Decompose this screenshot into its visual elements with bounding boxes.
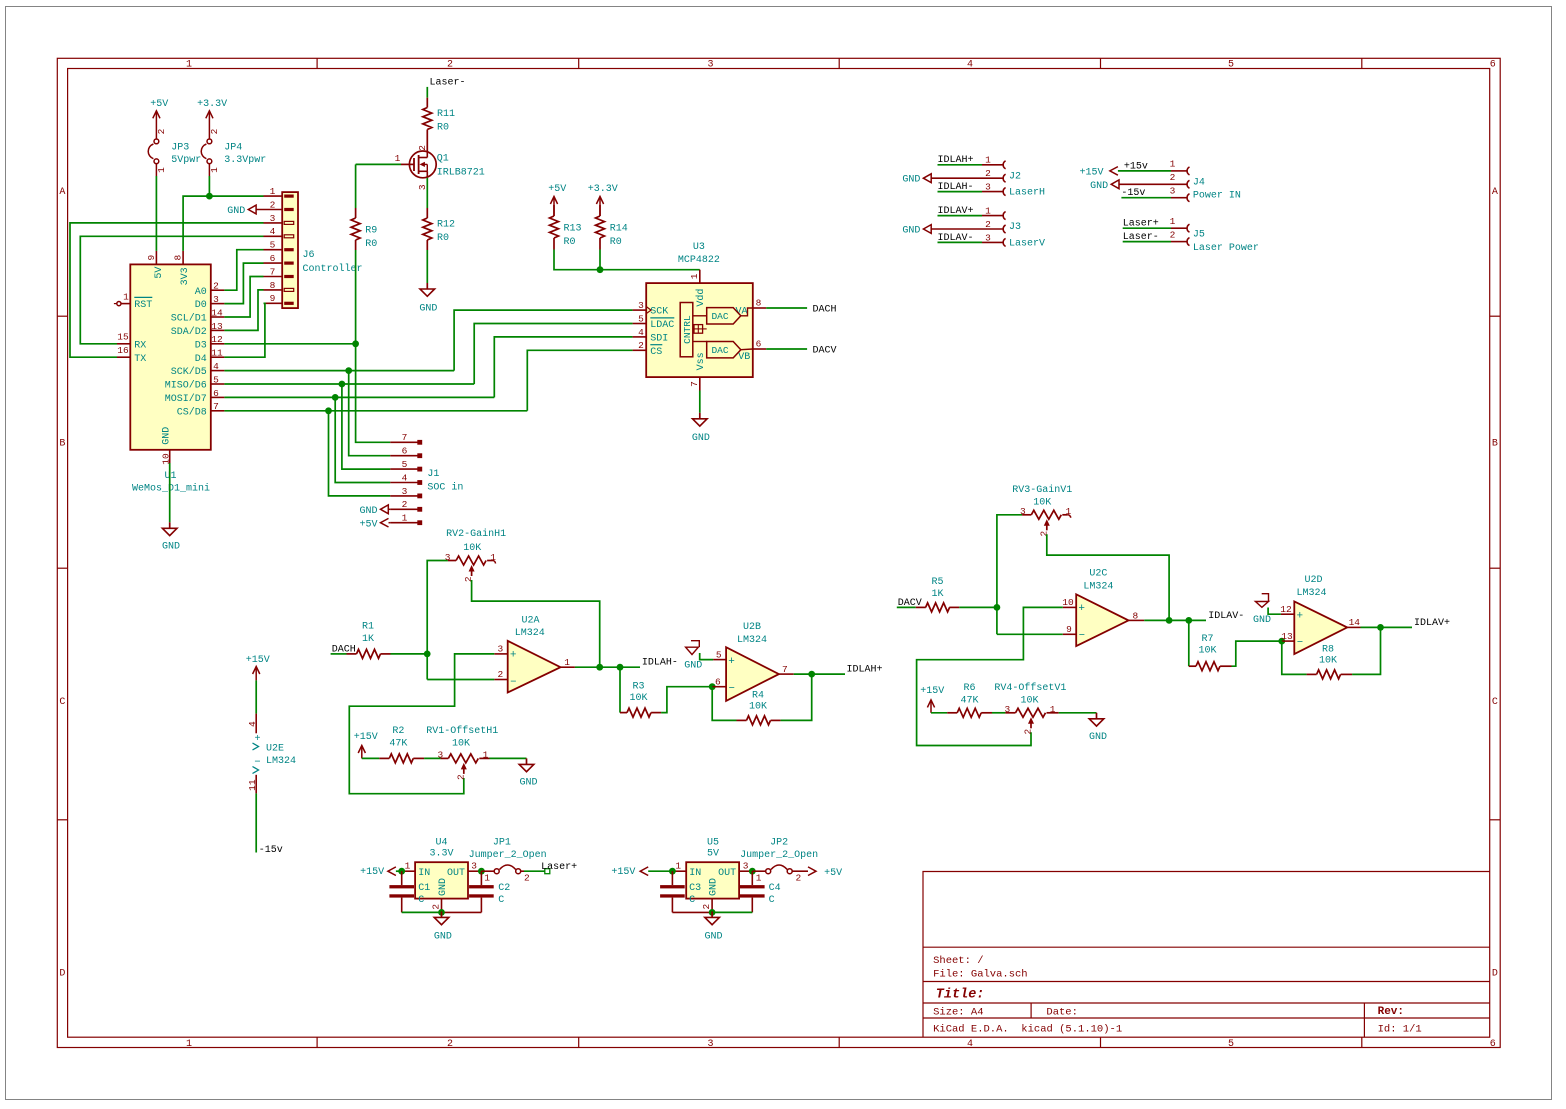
J6 pin 9: [264, 302, 283, 304]
J6 pin 6: [264, 262, 283, 264]
svg-text:D: D: [59, 969, 65, 980]
svg-text:IN: IN: [689, 868, 701, 879]
svg-text:Jumper_2_Open: Jumper_2_Open: [740, 850, 818, 861]
wire SDI to U3: [494, 337, 632, 398]
svg-text:3.3V: 3.3V: [429, 849, 453, 860]
U5 pin 2 (GND): [711, 899, 713, 913]
svg-text:C1: C1: [418, 883, 430, 894]
wire to R3: [619, 667, 621, 712]
svg-text:D4: D4: [195, 354, 207, 365]
ground flag J2 pin 2: [923, 174, 931, 183]
svg-text:IDLAV-: IDLAV-: [1208, 611, 1244, 622]
junction R7 branch: [1185, 617, 1192, 624]
wire to R7: [1188, 620, 1190, 666]
svg-text:R3: R3: [632, 682, 644, 693]
wire +in route U2A: [349, 654, 494, 794]
svg-text:C: C: [418, 895, 424, 906]
op-amp U2A: [508, 641, 561, 693]
svg-text:C4: C4: [769, 883, 781, 894]
svg-text:3: 3: [743, 860, 749, 871]
svg-text:R0: R0: [365, 239, 377, 250]
junction R5 out: [994, 604, 1001, 611]
svg-text:1: 1: [985, 155, 991, 166]
wire JP4 down: [208, 176, 210, 196]
svg-text:GND: GND: [438, 878, 449, 896]
svg-text:1: 1: [985, 206, 991, 217]
svg-text:Laser+: Laser+: [541, 862, 577, 873]
wire +15V to U5: [648, 870, 672, 872]
svg-text:Id: 1/1: Id: 1/1: [1378, 1024, 1422, 1036]
svg-text:WeMos_D1_mini: WeMos_D1_mini: [132, 483, 210, 495]
svg-text:IDLAH-: IDLAH-: [642, 658, 678, 669]
svg-text:10K: 10K: [463, 543, 481, 554]
svg-text:GND: GND: [419, 303, 437, 314]
svg-text:C2: C2: [498, 883, 510, 894]
wire R6 to RV4: [992, 712, 1005, 714]
svg-text:4: 4: [402, 472, 408, 483]
svg-text:2: 2: [213, 281, 219, 292]
svg-text:+15V: +15V: [920, 686, 944, 697]
ground U5: [711, 911, 713, 917]
svg-text:2: 2: [638, 340, 644, 351]
U3 pin 1 (Vdd): [699, 270, 701, 283]
svg-text:13: 13: [1281, 631, 1293, 642]
svg-text:IDLAV+: IDLAV+: [1414, 618, 1450, 629]
svg-text:Date:: Date:: [1046, 1007, 1078, 1019]
U3 internal links: [693, 315, 707, 317]
svg-text:JP2: JP2: [770, 837, 788, 848]
svg-text:3: 3: [213, 294, 219, 305]
svg-text:2: 2: [498, 669, 504, 680]
svg-text:2: 2: [270, 199, 276, 210]
U5 pin 3 (OUT): [739, 870, 752, 872]
U2D pin 12: [1281, 613, 1294, 615]
IC U1 body: [130, 264, 211, 449]
wire Q1 source: [426, 178, 428, 208]
J1 pin 7: [390, 441, 417, 443]
svg-text:R12: R12: [437, 219, 455, 230]
wire U2E V+: [255, 680, 257, 713]
U3 pin 5 (LDAC): [633, 323, 647, 325]
svg-text:C: C: [498, 895, 504, 906]
svg-text:2: 2: [431, 904, 442, 910]
svg-text:JP1: JP1: [493, 837, 511, 848]
svg-text:1: 1: [123, 291, 129, 302]
svg-text:GND: GND: [162, 541, 180, 552]
ground flag J6 pin2: [248, 205, 256, 214]
wire U3 Vss to GND: [699, 391, 701, 413]
wire R2 to RV1: [424, 757, 441, 759]
svg-text:+5V: +5V: [359, 519, 377, 530]
junction U2D -in: [1278, 638, 1285, 645]
svg-text:+15V: +15V: [1079, 167, 1103, 178]
svg-text:5: 5: [716, 649, 722, 660]
J1 pin 1: [390, 522, 417, 524]
svg-text:J1: J1: [427, 469, 439, 480]
svg-text:5: 5: [213, 374, 219, 385]
svg-text:Q1: Q1: [437, 153, 449, 164]
J5 pin 1: [1171, 227, 1187, 229]
wire R9 to J1 pin7: [356, 250, 391, 442]
svg-text:9: 9: [1066, 624, 1072, 635]
op-amp U2D: [1294, 602, 1347, 655]
resistor R1: [347, 653, 357, 655]
wire U5 ground rail red: [672, 911, 712, 913]
wire VA out: [766, 307, 807, 309]
wire D3 bus: [224, 343, 355, 345]
power flag +5V JP2: [792, 870, 808, 872]
svg-text:4: 4: [967, 1039, 973, 1050]
wire -in row U2C: [997, 633, 1063, 635]
potentiometer RV2-GainH1: [448, 560, 456, 562]
svg-text:U2B: U2B: [743, 622, 761, 633]
svg-text:10K: 10K: [1020, 695, 1038, 706]
svg-text:Vdd: Vdd: [695, 289, 707, 307]
op-amp U2E power unit: [255, 714, 257, 734]
svg-text:D0: D0: [195, 300, 207, 311]
svg-text:Controller: Controller: [303, 263, 363, 275]
wire Laser+: [1123, 227, 1171, 229]
U2C pin 8: [1129, 619, 1145, 621]
U2A pin 2: [494, 679, 507, 681]
svg-text:R0: R0: [610, 237, 622, 248]
svg-text:8: 8: [756, 297, 762, 308]
svg-text:14: 14: [211, 307, 223, 318]
junction RV3 feedback: [1166, 617, 1173, 624]
svg-text:R0: R0: [437, 122, 449, 133]
regulator U5 body: [686, 862, 739, 898]
U1 pin 8 (3V3): [182, 251, 184, 265]
resistor R2: [379, 757, 389, 759]
svg-text:MOSI/D7: MOSI/D7: [165, 393, 207, 405]
U3 pin 2 (CS): [633, 349, 647, 351]
resistor R3: [620, 712, 627, 714]
svg-text:+: +: [728, 656, 735, 668]
svg-text:3.3Vpwr: 3.3Vpwr: [224, 155, 266, 166]
wire end marker: [545, 869, 550, 874]
svg-text:J3: J3: [1009, 222, 1021, 233]
svg-text:RST: RST: [134, 300, 152, 311]
frame tick: [838, 58, 840, 68]
ground flag J1 pin2: [381, 505, 389, 514]
svg-text:1: 1: [756, 872, 762, 883]
wire junction to RV2 and -in: [427, 561, 448, 680]
svg-text:RV3-GainV1: RV3-GainV1: [1012, 484, 1072, 496]
svg-text:U2E: U2E: [266, 744, 284, 755]
resistor R5: [916, 606, 926, 608]
svg-text:3: 3: [445, 552, 451, 563]
wire U2C out: [1144, 619, 1206, 621]
junction U5 GND: [709, 909, 716, 916]
svg-text:47K: 47K: [960, 695, 978, 706]
svg-text:4: 4: [213, 361, 219, 372]
svg-text:SCL/D1: SCL/D1: [171, 313, 207, 325]
svg-text:OUT: OUT: [447, 868, 465, 879]
svg-text:6: 6: [1490, 60, 1496, 71]
svg-text:3: 3: [1020, 506, 1026, 517]
svg-text:5V: 5V: [707, 849, 719, 860]
svg-text:2: 2: [447, 1039, 453, 1050]
wire U5 ground rail: [712, 911, 752, 913]
svg-text:5: 5: [1228, 60, 1234, 71]
junction U2D out: [1377, 624, 1384, 631]
svg-text:4: 4: [270, 226, 276, 237]
svg-text:Laser Power: Laser Power: [1193, 243, 1259, 254]
resistor R7: [1189, 665, 1196, 667]
J5 pin 2: [1171, 241, 1187, 243]
svg-text:3: 3: [707, 1039, 713, 1050]
svg-text:1: 1: [490, 552, 496, 563]
svg-text:11: 11: [247, 779, 258, 791]
jumper JP2: [752, 870, 765, 872]
J1 pin 5: [390, 468, 417, 470]
wire Laser- to R11: [426, 87, 428, 98]
U3 pin 3 (SCK): [633, 309, 647, 311]
svg-text:10K: 10K: [749, 702, 767, 713]
svg-text:10: 10: [1062, 597, 1074, 608]
svg-text:1: 1: [270, 186, 276, 197]
svg-text:+15V: +15V: [354, 732, 378, 743]
U2C pin 9: [1063, 633, 1076, 635]
svg-text:−: −: [729, 683, 735, 695]
U3 CNTRL block: [680, 303, 693, 357]
svg-text:7: 7: [213, 401, 219, 412]
wire MISO to J1 pin5: [342, 384, 390, 469]
svg-text:U3: U3: [693, 242, 705, 253]
U1 pin 4 (SCK/D5): [211, 370, 225, 372]
svg-text:J5: J5: [1193, 230, 1205, 241]
svg-text:6: 6: [1490, 1039, 1496, 1050]
wire U2A out: [575, 666, 640, 668]
J1 pin 2: [390, 508, 417, 510]
svg-text:SCK/D5: SCK/D5: [171, 366, 207, 378]
svg-text:B: B: [59, 439, 65, 450]
junction SCK/D5: [345, 367, 352, 374]
wire A0 to J6 pin5: [224, 250, 263, 291]
U1 pin 9 (5V): [155, 251, 157, 265]
transistor Q1: [409, 151, 436, 178]
potentiometer RV1-OffsetH1: [441, 757, 449, 759]
svg-text:2: 2: [1023, 728, 1034, 734]
svg-text:1: 1: [484, 872, 490, 883]
U1 pin 2 (A0): [211, 289, 225, 291]
svg-text:JP4: JP4: [224, 143, 242, 154]
J4 pin 3: [1171, 197, 1187, 199]
J3 pin 2: [931, 228, 1002, 230]
ground U4: [441, 911, 443, 917]
svg-text:2: 2: [209, 128, 220, 134]
svg-text:J6: J6: [303, 250, 315, 261]
svg-text:Laser-: Laser-: [430, 77, 466, 88]
svg-text:R0: R0: [564, 237, 576, 248]
U4 pin 1 (IN): [402, 870, 415, 872]
svg-text:2: 2: [701, 904, 712, 910]
U3 DAC A: [707, 308, 741, 324]
U1 pin 12 (D3): [211, 343, 225, 345]
wire SCK/D5 bus: [224, 370, 454, 372]
sheet frame inner: [68, 69, 1490, 1038]
svg-text:+3.3V: +3.3V: [588, 184, 618, 195]
capacitor C3: [671, 871, 673, 885]
J2 pin 3: [982, 191, 1003, 193]
svg-text:TX: TX: [134, 354, 146, 365]
wire R8 loop: [1282, 641, 1307, 674]
capacitor C1: [401, 871, 403, 885]
junction R3 branch: [617, 664, 624, 671]
wire R5 to junction: [959, 606, 997, 608]
J4 pin 2: [1119, 183, 1187, 185]
frame tick: [57, 819, 67, 821]
svg-text:R0: R0: [437, 233, 449, 244]
svg-text:C: C: [769, 895, 775, 906]
svg-text:GND: GND: [519, 777, 537, 788]
svg-text:2: 2: [1038, 530, 1049, 536]
svg-text:DACV: DACV: [813, 345, 837, 356]
svg-text:Jumper_2_Open: Jumper_2_Open: [469, 850, 547, 861]
resistor R12: [426, 208, 428, 218]
svg-text:−: −: [1297, 637, 1303, 649]
svg-text:Vss: Vss: [696, 352, 707, 370]
svg-text:5: 5: [402, 459, 408, 470]
svg-text:2: 2: [985, 168, 991, 179]
svg-text:VB: VB: [738, 352, 750, 363]
svg-text:3: 3: [985, 182, 991, 193]
U1 pin 6 (MOSI/D7): [211, 396, 225, 398]
svg-text:2: 2: [795, 872, 801, 883]
svg-text:8: 8: [270, 280, 276, 291]
svg-text:7: 7: [270, 266, 276, 277]
svg-text:13: 13: [211, 321, 223, 332]
svg-text:−: −: [1079, 630, 1085, 642]
junction U2B out: [808, 671, 815, 678]
svg-text:DAC: DAC: [711, 311, 728, 322]
J6 pin 8: [264, 289, 283, 291]
junction U4 OUT: [478, 868, 485, 875]
junction CS/D8: [325, 407, 332, 414]
junction R14/Vdd: [597, 266, 604, 273]
U3 pin 6 (VB): [753, 348, 766, 350]
resistor R9: [355, 208, 357, 218]
wire U2D out: [1361, 626, 1413, 628]
svg-text:12: 12: [211, 334, 223, 345]
svg-text:CNTRL: CNTRL: [682, 315, 693, 344]
svg-text:1: 1: [156, 167, 167, 173]
svg-text:11: 11: [211, 348, 223, 359]
ground below R12: [426, 283, 428, 289]
J2 pin 2: [931, 177, 1002, 179]
J1 pin 4: [390, 482, 417, 484]
wire +15V to R6: [931, 712, 947, 714]
svg-text:3: 3: [707, 60, 713, 71]
J6 pin 1: [264, 195, 283, 197]
svg-text:1: 1: [186, 1039, 192, 1050]
frame tick: [57, 315, 67, 317]
svg-text:SDA/D2: SDA/D2: [171, 326, 207, 338]
svg-text:2: 2: [1170, 229, 1176, 240]
U1 pin 14 (SCL/D1): [211, 316, 225, 318]
junction R1 out: [424, 651, 431, 658]
wire +15V to U4: [396, 870, 402, 872]
svg-text:J2: J2: [1009, 171, 1021, 182]
junction U5 OUT: [749, 868, 756, 875]
svg-text:+15V: +15V: [246, 655, 270, 666]
J6 pin 4: [264, 235, 283, 237]
svg-text:2: 2: [524, 872, 530, 883]
ground below U3: [699, 413, 701, 419]
svg-text:C: C: [59, 697, 65, 708]
frame tick: [1100, 58, 1102, 68]
connector J6 body: [282, 192, 298, 308]
wire LDAC to U3: [474, 324, 632, 385]
svg-text:R4: R4: [752, 690, 764, 701]
svg-text:A: A: [59, 187, 65, 198]
svg-text:LM324: LM324: [266, 756, 296, 767]
wire MISO/D6 bus: [224, 383, 474, 385]
svg-text:+15V: +15V: [611, 867, 635, 878]
U1 pin 16 (TX): [117, 356, 130, 358]
svg-text:-15v: -15v: [259, 845, 283, 856]
potentiometer RV3-GainV1: [1022, 514, 1031, 516]
svg-text:10: 10: [160, 453, 171, 465]
svg-text:RV4-OffsetV1: RV4-OffsetV1: [994, 682, 1066, 694]
resistor R13: [553, 205, 555, 216]
wire SCK to U3: [454, 310, 632, 371]
svg-text:4: 4: [967, 60, 973, 71]
svg-text:Sheet: /: Sheet: /: [933, 955, 983, 967]
svg-text:+: +: [1078, 603, 1085, 615]
svg-text:2: 2: [156, 128, 167, 134]
frame tick: [57, 567, 67, 569]
U5 pin 1 (IN): [672, 870, 686, 872]
svg-text:6: 6: [756, 338, 762, 349]
svg-text:B: B: [1492, 439, 1498, 450]
svg-text:5Vpwr: 5Vpwr: [171, 155, 201, 166]
junction MOSI/D7: [332, 394, 339, 401]
svg-text:GND: GND: [692, 433, 710, 444]
J3 pin 3: [982, 241, 1003, 243]
svg-text:GND: GND: [902, 175, 920, 186]
potentiometer RV4-OffsetV1: [1005, 712, 1015, 714]
svg-text:LM324: LM324: [515, 628, 545, 639]
svg-text:LaserV: LaserV: [1009, 238, 1045, 249]
svg-text:U2C: U2C: [1089, 569, 1107, 580]
svg-text:10K: 10K: [1319, 656, 1337, 667]
junction MISO/D6: [339, 381, 346, 388]
op-amp U2B: [726, 647, 779, 701]
svg-text:2: 2: [402, 499, 408, 510]
svg-text:R1: R1: [362, 621, 374, 632]
svg-text:RX: RX: [134, 340, 146, 351]
svg-text:6: 6: [213, 388, 219, 399]
svg-text:1: 1: [483, 750, 489, 761]
U3 DAC B: [707, 342, 741, 358]
svg-text:R9: R9: [365, 225, 377, 236]
svg-text:4: 4: [638, 327, 644, 338]
U2A pin 3: [494, 653, 507, 655]
ground RV4: [1096, 713, 1098, 719]
power flag +5V J1 pin1: [381, 518, 389, 527]
svg-text:1K: 1K: [362, 634, 374, 645]
J1 pin 6: [390, 455, 417, 457]
wire R14 down: [599, 250, 601, 270]
wire D4 to J6 pin9: [224, 303, 265, 357]
resistor R8: [1307, 673, 1317, 675]
svg-text:LM324: LM324: [1083, 582, 1113, 593]
jumper JP4: [207, 139, 212, 144]
svg-text:9: 9: [270, 293, 276, 304]
wire DACH to R1: [331, 653, 347, 655]
J6 pin 3: [264, 222, 283, 224]
